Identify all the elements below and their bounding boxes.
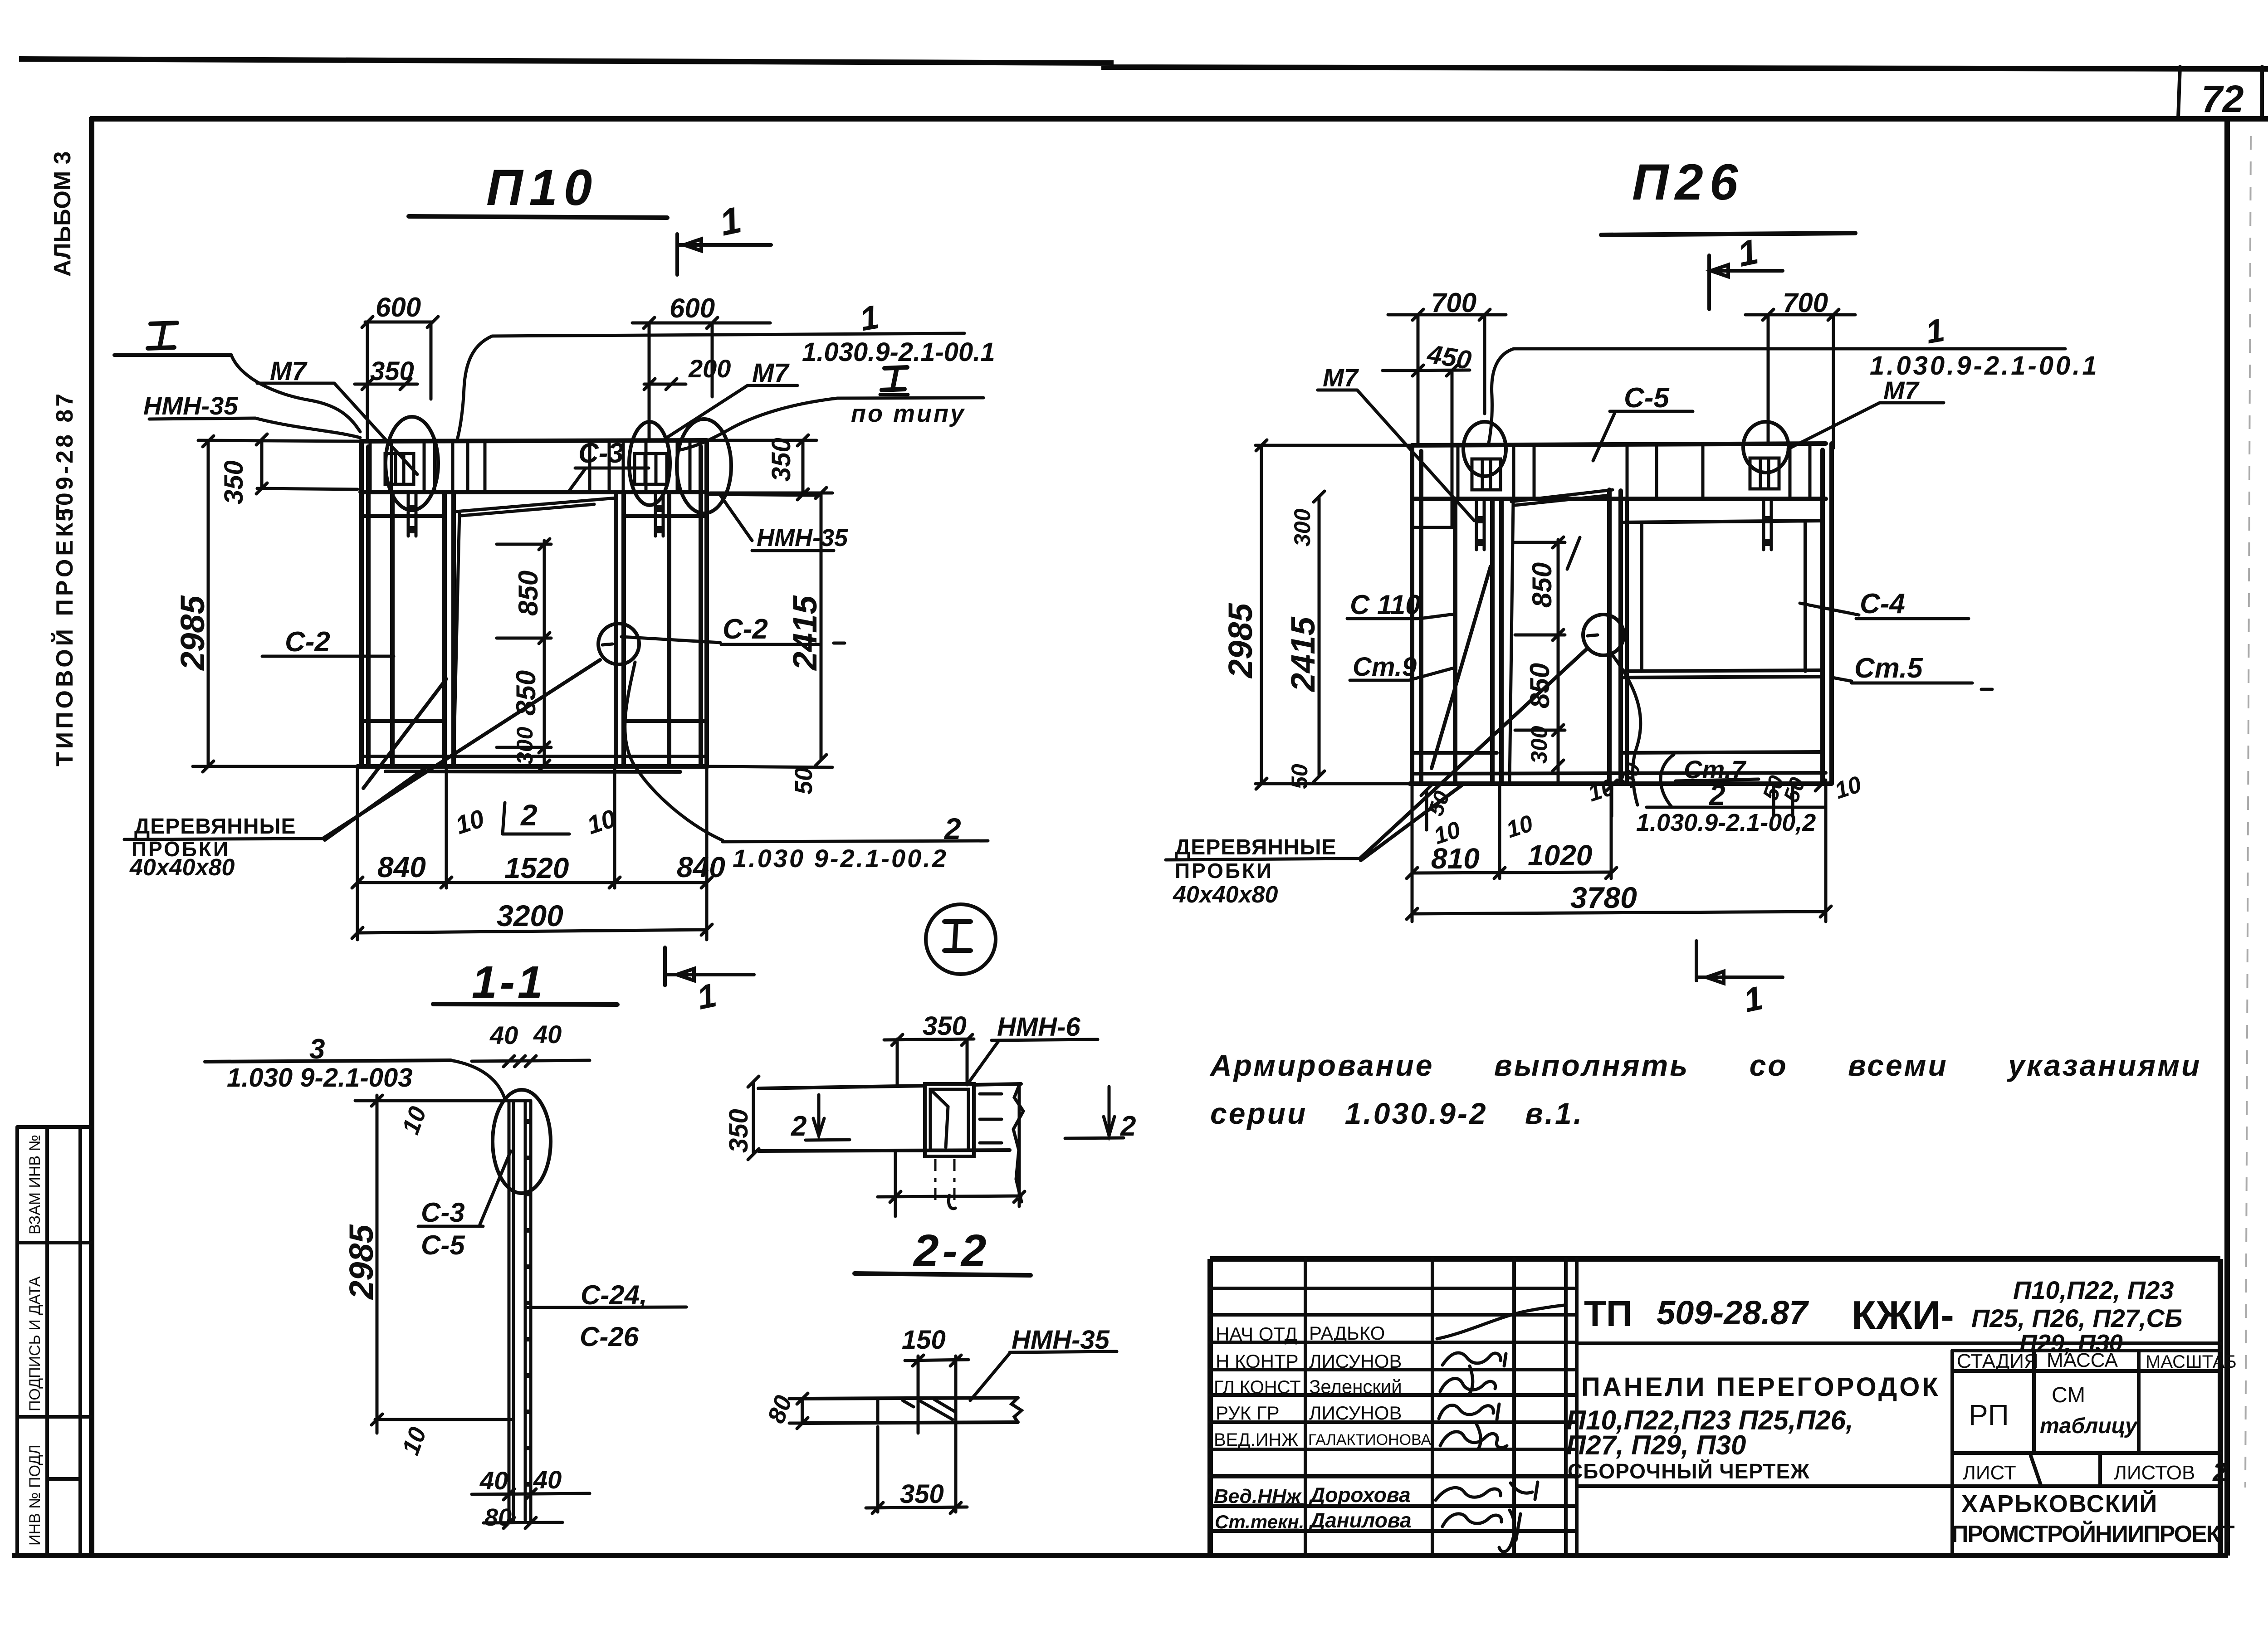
P10 plug circle tail [625,662,723,840]
svg-text:ВЗАМ ИНВ №: ВЗАМ ИНВ № [26,1135,44,1234]
P10 door opening left jamb [445,492,454,766]
P10 dim 350 right band [709,435,816,500]
bar interior [878,1399,956,1423]
svg-text:40: 40 [533,1020,562,1049]
svg-text:40х40х80: 40х40х80 [1173,882,1278,908]
scan artifact faint line [2245,136,2251,1488]
P26 stile rails bottom [1412,752,1823,753]
svg-text:МАССА: МАССА [2047,1349,2118,1371]
title block column lines [1305,1259,1577,1556]
P26 plug circle tail [1612,654,1641,805]
P10 stile rails [362,516,707,721]
svg-text:600: 600 [670,293,715,323]
svg-text:Дорохова: Дорохова [1308,1483,1411,1507]
P10 loop legs left [408,492,416,536]
НМН-6 dashes right [980,1094,1002,1143]
svg-text:350: 350 [219,460,249,504]
svg-text:ПРОБКИ: ПРОБКИ [1175,859,1273,883]
P10 left stile rib [390,492,395,766]
panel bar in plan [802,1398,1018,1423]
P26 door opening left jamb [1492,499,1501,784]
НМН-6 anchor square [925,1084,974,1156]
detail I dim 350 left [748,1076,759,1160]
svg-text:ДЕРЕВЯННЫЕ: ДЕРЕВЯННЫЕ [134,815,296,839]
page right edge [2260,67,2264,119]
svg-text:ЛИСУНОВ: ЛИСУНОВ [1309,1402,1402,1424]
svg-text:1.030 9-2.1-003: 1.030 9-2.1-003 [227,1063,413,1093]
P26 lifting loop oval left [1463,422,1506,476]
section mark 1 (top) [1709,255,1783,309]
svg-text:таблицу: таблицу [2040,1414,2138,1438]
svg-text:НАЧ ОТД: НАЧ ОТД [1216,1323,1297,1345]
svg-text:РП: РП [1969,1399,2009,1431]
svg-text:ПОДПИСЬ И ДАТА: ПОДПИСЬ И ДАТА [26,1276,44,1411]
svg-text:1020: 1020 [1528,839,1592,872]
svg-text:C-24,: C-24, [581,1280,647,1310]
1-1 top oval [493,1090,551,1193]
P10 leader 1 [457,333,964,441]
svg-text:850: 850 [1527,562,1557,608]
P10 dim 600 left [362,317,438,441]
P10 dim 350 left [198,434,361,494]
detail I dim 350 top [884,1034,974,1085]
1-1 labels С-24 С-26 [528,1307,686,1307]
svg-text:3780: 3780 [1570,881,1637,914]
svg-text:ПРОМСТРОЙНИИПРОЕКТ: ПРОМСТРОЙНИИПРОЕКТ [1951,1521,2235,1547]
svg-text:Зеленский: Зеленский [1309,1376,1402,1397]
P10 bottom edge [357,764,708,769]
svg-text:П25, П26, П27,СБ: П25, П26, П27,СБ [1971,1304,2183,1332]
svg-text:2985: 2985 [1222,603,1259,679]
svg-text:СБОРОЧНЫЙ ЧЕРТЕЖ: СБОРОЧНЫЙ ЧЕРТЕЖ [1568,1459,1810,1483]
P10 embedded plate M7 right [635,454,667,484]
svg-text:2985: 2985 [174,595,211,671]
svg-text:40х40х80: 40х40х80 [129,854,235,881]
P10 door opening right jamb [616,492,624,766]
svg-text:2: 2 [2212,1458,2227,1487]
title block big part dividers [1577,1343,2220,1556]
svg-text:C-26: C-26 [580,1322,639,1352]
dim 350 bottom [866,1427,967,1513]
svg-text:700: 700 [1431,288,1476,318]
P26 dim line 3780 [1407,906,1831,919]
P26 leader 1 [1488,349,2065,445]
P26 plug leader diagonals [1360,649,1586,860]
P26 band hatch verticals [1458,444,1810,499]
svg-text:150: 150 [902,1325,946,1355]
svg-text:C-2: C-2 [723,614,768,645]
svg-text:1.030.9-2.1-00,2: 1.030.9-2.1-00,2 [1636,809,1816,836]
svg-text:РУК ГР: РУК ГР [1216,1402,1280,1424]
svg-text:ХАРЬКОВСКИЙ: ХАРЬКОВСКИЙ [1961,1490,2158,1517]
svg-text:72: 72 [2201,78,2244,120]
svg-text:РАДЬКО: РАДЬКО [1309,1322,1385,1344]
svg-text:ТИПОВОЙ ПРОЕКТ: ТИПОВОЙ ПРОЕКТ [51,501,78,766]
svg-text:П26: П26 [1632,154,1744,210]
P26 door leaf [1510,490,1613,783]
svg-text:Cт.9: Cт.9 [1353,652,1417,682]
1-1 dim 2985 [355,1095,513,1433]
svg-text:ИНВ № ПОДЛ: ИНВ № ПОДЛ [26,1444,44,1546]
P26 dim 700 left [1388,309,1506,445]
title block row lines left part [1210,1288,1577,1531]
margin stamp table [17,1127,91,1556]
P10 dim line 3200 [352,924,712,938]
svg-text:Н КОНТР: Н КОНТР [1216,1351,1299,1372]
detail I bottom tick [948,1195,955,1209]
svg-text:C-5: C-5 [421,1230,465,1260]
P10 dim line 840-1520-840 [352,877,712,888]
P26 bottom extension lines [1412,784,1826,922]
P26 opening height dim line [1515,537,1565,783]
svg-text:M7: M7 [1323,363,1359,392]
P10 dim 600 right [632,317,770,441]
svg-text:ЛИСТОВ: ЛИСТОВ [2114,1462,2195,1484]
P10 lifting loop oval right [629,422,670,505]
svg-text:ЛИСТ: ЛИСТ [1963,1462,2016,1484]
P26 bottom section flag [1696,941,1783,983]
svg-text:40: 40 [479,1466,508,1495]
P26 wooden plug circle [1583,615,1624,655]
svg-text:200: 200 [688,354,731,383]
bar right break [1012,1398,1022,1422]
sheet number box divider [2178,67,2180,118]
svg-text:ПАНЕЛИ ПЕРЕГОРОДОК: ПАНЕЛИ ПЕРЕГОРОДОК [1581,1372,1941,1402]
detail I right break [1013,1084,1023,1202]
detail I bottom dim [878,1084,1025,1216]
1-1 rebar dots [525,1119,529,1487]
svg-text:2415: 2415 [1284,616,1322,693]
svg-text:МАСШТАБ: МАСШТАБ [2146,1352,2237,1372]
svg-text:1.030.9-2.1-00.1: 1.030.9-2.1-00.1 [802,337,995,367]
svg-text:ГЛ КОНСТ: ГЛ КОНСТ [1214,1377,1301,1397]
svg-text:2: 2 [520,798,538,832]
svg-text:Армирование выполнять со вс: Армирование выполнять со всеми указаниям… [1209,1049,2201,1082]
svg-text:ТП: ТП [1584,1293,1632,1334]
P26 panel edges [1412,444,1832,784]
svg-text:50: 50 [790,767,817,795]
svg-text:Данилова: Данилова [1308,1508,1412,1532]
svg-text:C 110: C 110 [1350,590,1421,620]
P26 left stile rib [1453,499,1457,783]
svg-text:1-1: 1-1 [472,957,546,1008]
svg-text:C-2: C-2 [285,626,330,658]
P26 left stile diagonal [1432,566,1491,768]
P10 dim 2985 left [193,436,358,772]
svg-text:HMH-35: HMH-35 [143,391,238,420]
svg-text:СМ: СМ [2052,1383,2085,1407]
P10 top band outline [361,440,707,492]
P10 bottom extension lines [357,766,707,940]
P26 embedded plate M7 right [1750,458,1779,489]
svg-text:50: 50 [1287,764,1312,789]
signature scribbles [1437,1305,1564,1339]
svg-text:серии 1.030.9-2 в.1.: серии 1.030.9-2 в.1. [1210,1097,1584,1130]
section mark 1 (top) [677,234,771,275]
svg-text:M7: M7 [752,358,790,388]
svg-text:850: 850 [513,571,543,616]
P10 dim 200 [644,379,686,390]
svg-text:ЛИСУНОВ: ЛИСУНОВ [1309,1351,1402,1372]
P26 loop legs right [1764,499,1771,550]
P26 dim 450 [1383,365,1470,527]
svg-text:C-3: C-3 [421,1197,465,1228]
svg-text:80: 80 [484,1504,512,1531]
svg-text:M7: M7 [1883,376,1920,405]
P10 leader по типу [680,398,983,450]
svg-text:840: 840 [677,851,725,883]
svg-text:П10: П10 [486,159,598,216]
svg-text:600: 600 [376,292,421,322]
P26 loop legs left [1476,499,1484,550]
svg-text:2415: 2415 [786,595,824,671]
P10 plug leader diagonals [323,660,600,840]
svg-text:40: 40 [489,1021,518,1049]
title underline [1601,233,1855,235]
P10 detail mark I right [882,367,907,390]
svg-text:HMH-35: HMH-35 [757,524,848,551]
P26 bottom edge [1410,781,1832,786]
P26 right section inner frame [1621,499,1823,783]
P10 right stile rib [667,492,671,766]
top page rule line [19,59,2268,69]
svg-text:810: 810 [1431,842,1480,875]
P10 wooden plug circle [598,624,639,664]
P26 lifting loop oval right [1743,422,1789,473]
P26 bottom rail [1412,773,1826,774]
svg-text:300: 300 [1290,508,1315,546]
P10 embedded plate M7 left [385,454,414,484]
P26 door opening right jamb [1609,490,1621,784]
svg-text:300: 300 [1526,726,1552,764]
svg-text:700: 700 [1783,288,1828,318]
P26 dim 2985 left [1256,440,1412,789]
svg-text:350: 350 [370,356,414,386]
svg-text:350: 350 [724,1109,753,1153]
svg-text:П10,П22, П23: П10,П22, П23 [2013,1276,2174,1304]
svg-text:Cт.5: Cт.5 [1854,653,1923,684]
P10 dim 2415 right [710,488,832,766]
НМН-6 dashed legs below [935,1159,954,1202]
svg-text:C-4: C-4 [1860,588,1905,619]
svg-text:M7: M7 [270,356,308,386]
P10 door leaf [454,498,616,766]
P10 dim 350 mid [355,379,417,390]
svg-text:по типу: по типу [851,400,966,427]
P10 bottom section flag [665,947,754,985]
svg-text:HMH-6: HMH-6 [997,1012,1080,1042]
P26 dim line 810-1020 [1407,868,1617,878]
svg-text:350: 350 [923,1011,967,1041]
svg-text:1520: 1520 [504,852,569,884]
P26 small dim ticks bottom [1421,780,1826,830]
P10 opening height dim line [497,539,551,771]
P26 dim 700 right [1745,309,1855,448]
P26 top band outline [1412,444,1826,499]
svg-text:350: 350 [767,438,796,482]
svg-text:840: 840 [377,851,426,883]
P26 embedded plate M7 left [1472,459,1501,490]
svg-text:ВЕД.ИНЖ: ВЕД.ИНЖ [1214,1430,1298,1450]
title block outer border [1210,1259,2220,1556]
svg-text:1.030 9-2.1-00.2: 1.030 9-2.1-00.2 [733,844,948,873]
P26 dim 2415 [1314,491,1325,782]
1-1 bar verticals [509,1101,531,1520]
P10 detail mark I left [148,323,177,348]
svg-text:350: 350 [900,1479,944,1509]
svg-text:П27, П29, П30: П27, П29, П30 [1566,1430,1746,1460]
P10 anchor oval far right [677,419,731,513]
svg-text:ГАЛАКТИОНОВА: ГАЛАКТИОНОВА [1308,1431,1432,1449]
svg-text:2985: 2985 [342,1224,380,1300]
detail I panel edges [758,1084,1021,1151]
svg-text:3200: 3200 [497,899,563,932]
svg-text:АЛЬБОМ 3: АЛЬБОМ 3 [49,151,76,277]
svg-text:300: 300 [512,727,538,765]
svg-text:509-28.87: 509-28.87 [1657,1294,1809,1332]
svg-text:СТАДИЯ: СТАДИЯ [1957,1350,2038,1372]
P10 band hatch verticals [370,441,690,492]
P10 bottom rail [362,756,707,772]
P10 lifting loop oval left [386,417,438,510]
svg-text:C-3: C-3 [578,438,624,469]
svg-text:КЖИ-: КЖИ- [1852,1293,1954,1337]
svg-text:2-2: 2-2 [913,1225,990,1276]
P10 panel edges [362,440,707,766]
P26 stray tick 1 [1567,537,1580,569]
P10 loop legs right [655,492,663,536]
svg-text:C-5: C-5 [1624,382,1670,414]
svg-text:ДЕРЕВЯННЫЕ: ДЕРЕВЯННЫЕ [1175,835,1337,859]
svg-text:2: 2 [791,1111,807,1142]
title underline [409,216,667,218]
